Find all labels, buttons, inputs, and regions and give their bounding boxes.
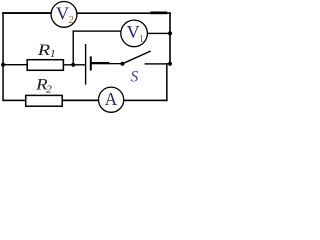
voltmeter V2 bbox=[51, 2, 77, 28]
wire right vertical upper bbox=[169, 12, 171, 65]
switch lever bbox=[123, 51, 151, 64]
svg-text:1: 1 bbox=[50, 48, 56, 60]
wire top (V2 to right corner) bbox=[77, 12, 171, 14]
svg-text:A: A bbox=[105, 89, 117, 109]
wire R1 to mid junction bbox=[63, 64, 74, 65]
label R2 bbox=[35, 77, 52, 96]
wire top (left corner to V2) bbox=[2, 12, 51, 14]
svg-text:S: S bbox=[130, 68, 138, 85]
wire battery to switch (thick) bbox=[91, 62, 110, 64]
switch S bbox=[121, 51, 151, 66]
wire to switch pivot bbox=[108, 63, 123, 64]
junction left node bbox=[1, 63, 5, 67]
battery cell bbox=[85, 44, 92, 85]
battery short plate bbox=[90, 56, 92, 70]
wire V1 branch vertical bbox=[73, 30, 74, 65]
wire R2 to ammeter bbox=[62, 100, 99, 101]
switch pivot junction bbox=[121, 62, 125, 66]
wire mid junction to battery bbox=[73, 64, 86, 65]
resistor R2 bbox=[26, 95, 63, 106]
label R1 bbox=[36, 42, 55, 60]
junction right node switch bbox=[168, 62, 172, 66]
wire right vertical lower bbox=[166, 63, 168, 101]
ammeter A bbox=[99, 87, 124, 112]
svg-text:1: 1 bbox=[139, 33, 145, 45]
wire V1 branch horizontal right bbox=[148, 33, 171, 34]
resistor R1 bbox=[27, 60, 63, 71]
svg-text:R: R bbox=[36, 42, 50, 59]
voltmeter V1 bbox=[121, 20, 148, 47]
svg-text:2: 2 bbox=[46, 83, 52, 95]
junction right node V1 bbox=[168, 31, 172, 35]
wire middle row left (junction to R1) bbox=[2, 64, 28, 65]
wire V1 branch horizontal left bbox=[73, 30, 122, 31]
wire switch contact to right junction bbox=[145, 63, 170, 64]
wire left vertical bbox=[2, 12, 4, 101]
wire top right thick segment bbox=[151, 12, 168, 15]
svg-text:2: 2 bbox=[69, 14, 75, 26]
junction mid node (R1 right / V1 tap) bbox=[71, 63, 75, 67]
wire bottom bbox=[2, 100, 167, 102]
svg-text:V: V bbox=[56, 3, 69, 23]
battery long plate bbox=[85, 44, 86, 85]
